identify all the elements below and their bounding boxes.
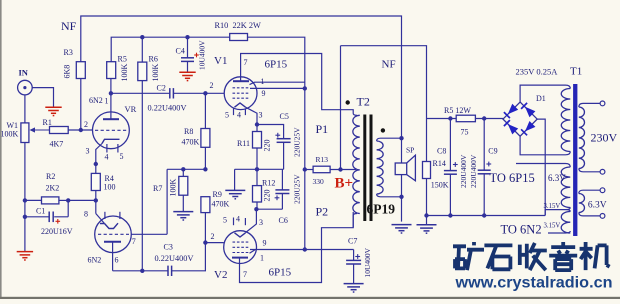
watermark char yin: [549, 242, 577, 270]
svg-text:4K7: 4K7: [50, 140, 64, 149]
svg-text:C2: C2: [157, 83, 166, 92]
svg-text:2: 2: [84, 120, 88, 129]
junction rail/R13: [303, 167, 307, 171]
svg-text:220U16V: 220U16V: [41, 227, 73, 236]
junction C9 top: [482, 116, 486, 120]
junction secondary bottom/SP ground: [399, 195, 403, 199]
wire 6.3V bottom lead: [579, 213, 600, 216]
ground R14: [417, 225, 437, 233]
junction pin3/R4: [94, 162, 98, 166]
wire P1 top connector: [353, 110, 357, 115]
wire secondary top connector: [377, 138, 381, 141]
svg-text:1: 1: [105, 97, 109, 106]
capacitor C4: [181, 58, 194, 62]
svg-text:T2: T2: [357, 95, 370, 109]
svg-text:10U400V: 10U400V: [363, 247, 372, 277]
svg-text:6N2: 6N2: [89, 96, 103, 105]
wire V1 pin7 to P1: [241, 54, 354, 111]
diode D1 lower-right: [525, 121, 535, 131]
ground cathode row: [225, 190, 245, 198]
wire C6 bottom: [281, 194, 283, 210]
capacitor C3: [168, 266, 172, 276]
diode D1 upper-left: [508, 104, 518, 114]
ground bottom-left (red): [17, 252, 33, 260]
resistor R8: [201, 129, 210, 148]
svg-text:2: 2: [211, 232, 215, 241]
heater stubs upper 6N2: [107, 144, 118, 153]
core T1: [573, 84, 577, 236]
wire C9 top lead: [483, 119, 485, 171]
wire grid pin7 to NF node: [131, 233, 167, 235]
wire row down to 6N2 grid: [166, 169, 168, 234]
svg-text:235V 0.25A: 235V 0.25A: [516, 67, 559, 77]
phasing dot T2 primary: [346, 100, 350, 104]
potentiometer W1: [21, 123, 29, 143]
junction W1/C1: [23, 215, 27, 219]
svg-text:6P15: 6P15: [265, 59, 288, 71]
bottom edge line: [0, 297, 620, 299]
svg-text:10U400V: 10U400V: [198, 40, 207, 70]
grids V2: [233, 242, 251, 252]
capacitor C7: [346, 260, 361, 264]
wire R13 left: [305, 169, 313, 171]
wire R7 top: [182, 169, 184, 176]
diode D1 lower-left: [508, 124, 518, 134]
wire heater center tap: [545, 208, 570, 216]
core T2: [365, 115, 371, 222]
svg-text:7: 7: [132, 237, 136, 246]
svg-text:1: 1: [260, 254, 264, 263]
ground R7: [173, 212, 193, 220]
svg-text:100K: 100K: [120, 64, 129, 82]
svg-text:3.15V: 3.15V: [544, 203, 561, 210]
wire C4 top: [187, 37, 189, 58]
wire C3 left: [142, 270, 168, 272]
wire B+ vertical: [340, 46, 342, 170]
wire V1 pin3 cathode: [246, 107, 258, 131]
wire bridge minus: [537, 119, 545, 215]
plate V2: [232, 257, 248, 259]
svg-text:3: 3: [86, 147, 90, 156]
watermark char shou: [520, 243, 547, 270]
svg-text:P2: P2: [316, 205, 329, 219]
cathode lower 6N2: [100, 223, 118, 228]
wire T1 primary top corner: [566, 85, 571, 88]
svg-text:230V: 230V: [591, 131, 618, 145]
grids V1: [233, 88, 251, 98]
svg-text:R7: R7: [153, 184, 162, 193]
junction row/R7: [181, 167, 185, 171]
svg-text:R1: R1: [43, 118, 52, 127]
wire heater bottom tap: [548, 232, 566, 234]
wire NF/secondary to speaker: [401, 138, 403, 163]
svg-text:6.3V: 6.3V: [548, 173, 566, 183]
watermark char ji: [580, 242, 610, 270]
diode D1 upper-right: [525, 107, 535, 117]
wire R2 right: [59, 199, 68, 201]
wire row ground stem: [234, 169, 236, 190]
wire bridge AC bottom: [520, 136, 565, 155]
wire R8 top lead: [204, 93, 206, 128]
wire R6 top: [141, 37, 143, 62]
terminal 6.3V top: [600, 188, 605, 193]
svg-text:150K: 150K: [431, 181, 449, 190]
capacitor C6: [275, 190, 289, 194]
svg-text:R3: R3: [64, 48, 73, 57]
resistor R6: [138, 62, 147, 81]
svg-text:5: 5: [120, 152, 124, 161]
svg-text:C6: C6: [279, 216, 288, 225]
svg-text:8: 8: [84, 210, 88, 219]
junction R3/R1/grid: [79, 128, 83, 132]
resistor R5: [107, 62, 116, 79]
junction R4/R2 wire: [94, 198, 98, 202]
junction B+/R13: [338, 167, 342, 171]
wire C1 left: [25, 216, 49, 218]
wire R5 bottom to plate: [110, 79, 112, 120]
svg-text:220U25V: 220U25V: [292, 127, 301, 157]
ground speaker: [392, 225, 412, 233]
wire 6.3V top lead: [579, 190, 600, 193]
svg-text:6.3V: 6.3V: [588, 201, 607, 211]
ground C7: [344, 284, 364, 292]
wiper arrow W1: [30, 127, 50, 132]
junction plate/R5/C2: [109, 91, 113, 95]
svg-text:IN: IN: [19, 68, 29, 78]
junction pin3/R11/C5: [255, 122, 259, 126]
svg-text:220: 220: [263, 190, 272, 202]
svg-text:9: 9: [263, 239, 267, 248]
wire R8 bottom: [204, 147, 206, 169]
svg-text:3: 3: [259, 111, 263, 120]
plate upper 6N2: [103, 118, 119, 120]
terminal 230V top: [600, 101, 605, 106]
svg-text:V2: V2: [214, 269, 227, 281]
wire C2 to V1 grid: [173, 92, 224, 94]
svg-text:3: 3: [259, 218, 263, 227]
svg-text:B+: B+: [335, 176, 354, 192]
wire C6 top: [281, 169, 283, 190]
tube 6N2 lower envelope: [95, 216, 132, 253]
svg-text:220: 220: [263, 140, 272, 152]
wire R13 right to tap: [330, 169, 356, 171]
winding T1 230V: [579, 107, 585, 169]
resistor R4: [91, 173, 100, 190]
wire C3 right: [172, 243, 206, 271]
resistor R12: [253, 186, 262, 202]
grid upper 6N2: [95, 129, 127, 131]
wire screens to C7: [353, 250, 355, 261]
wire 230V bottom lead: [579, 169, 600, 172]
junction bus/C8: [448, 213, 452, 217]
junction V2 screens/rail: [303, 247, 307, 251]
svg-text:100K: 100K: [1, 130, 19, 139]
wire R5 12W right: [475, 118, 503, 120]
resistor R14: [423, 162, 431, 179]
tube V2 envelope: [224, 231, 257, 264]
winding secondary of T2: [377, 141, 384, 194]
wire P2 bottom connector: [353, 214, 357, 228]
wire C8 bottom lead: [449, 174, 451, 215]
cathode V1: [235, 103, 246, 107]
svg-text:TO 6P15: TO 6P15: [490, 171, 535, 185]
junction R6 top: [140, 35, 144, 39]
wire pin8 into cathode: [96, 214, 105, 224]
svg-text:4: 4: [105, 153, 109, 162]
svg-text:4: 4: [236, 215, 240, 224]
grid lower 6N2: [98, 233, 129, 235]
junction R9/C3/V2 grid: [203, 240, 207, 244]
wire NF top line: [81, 16, 402, 138]
terminal 230V bottom: [600, 169, 605, 174]
wire bridge AC top: [520, 85, 565, 102]
wire preamp rail: [111, 37, 230, 62]
junction V1 screens/rail: [303, 86, 307, 90]
svg-text:6: 6: [115, 256, 119, 265]
svg-text:470K: 470K: [212, 200, 230, 209]
svg-text:220U25V: 220U25V: [292, 174, 301, 204]
svg-text:R5: R5: [118, 55, 127, 64]
svg-text:75: 75: [461, 128, 469, 137]
wire V2 pin1 lead: [250, 250, 256, 253]
svg-text:R9: R9: [213, 190, 222, 199]
svg-text:100K: 100K: [151, 64, 160, 82]
terminal 6.3V bottom: [600, 214, 605, 219]
svg-text:NF: NF: [382, 59, 396, 71]
winding T1 primary: [561, 89, 570, 152]
bridge D1 outline: [503, 102, 537, 136]
junction C2/R8/V1 grid: [203, 91, 207, 95]
wire secondary bottom connector: [377, 194, 381, 197]
wire R7 to ground: [182, 195, 184, 211]
resistor R9: [201, 197, 210, 213]
svg-text:4: 4: [237, 111, 241, 120]
junction C4 top: [185, 35, 189, 39]
svg-text:6N2: 6N2: [88, 256, 102, 265]
svg-text:0.22U400V: 0.22U400V: [155, 254, 194, 263]
wire cathode to C5: [257, 125, 284, 139]
svg-text:D1: D1: [536, 94, 546, 103]
wire C9 bottom lead: [483, 174, 485, 216]
junction NF/secondary/SP: [399, 136, 403, 140]
svg-text:1: 1: [261, 77, 265, 86]
svg-text:6K8: 6K8: [63, 65, 72, 79]
wire plate pin6 down: [113, 242, 143, 271]
winding T1 6.3V: [579, 194, 585, 213]
capacitor C5: [277, 139, 291, 143]
wire R10 right to screen rail: [248, 37, 305, 249]
heater stubs V1: [234, 108, 246, 115]
winding T1 heater lower: [561, 212, 570, 234]
wire W1 down to ground: [24, 143, 26, 252]
svg-text:T1: T1: [570, 66, 582, 78]
svg-text:C3: C3: [164, 243, 173, 252]
junction R2 right: [66, 198, 70, 202]
wire speaker to ground: [401, 175, 403, 222]
svg-text:3.15V: 3.15V: [544, 222, 561, 229]
wire secondary top to SP: [381, 137, 402, 139]
resistor R5 12W: [456, 115, 475, 122]
wire R2 left: [25, 199, 42, 201]
svg-text:R10 22K 2W: R10 22K 2W: [215, 21, 261, 30]
svg-text:0.22U400V: 0.22U400V: [148, 103, 187, 112]
svg-text:6P15: 6P15: [269, 267, 292, 279]
winding P1/P2 of T2: [353, 115, 360, 213]
resistor R7: [179, 176, 188, 195]
svg-text:100: 100: [104, 183, 116, 192]
watermark char shi: [484, 245, 512, 269]
svg-text:R5 12W: R5 12W: [444, 106, 471, 115]
wire R12 leads: [256, 169, 258, 209]
wire 230V top lead: [579, 103, 600, 107]
svg-text:R2: R2: [46, 172, 55, 181]
wire V2 pin7 to P2: [240, 212, 354, 283]
svg-text:470K: 470K: [182, 138, 200, 147]
junction plate6/C3: [140, 269, 144, 273]
wire NF row: [167, 168, 205, 170]
winding T1 heater upper: [561, 167, 570, 208]
svg-text:C8: C8: [437, 147, 446, 156]
wire R6 bottom long: [141, 81, 143, 271]
ground C4 (red): [179, 72, 195, 80]
svg-text:TO 6N2: TO 6N2: [501, 223, 542, 237]
wire C7 to ground: [353, 264, 355, 283]
svg-text:NF: NF: [61, 19, 77, 33]
junction bus/C9: [482, 213, 486, 217]
wire lower cathode row: [256, 208, 282, 210]
svg-text:V1: V1: [214, 55, 227, 67]
wire B+ feed: [341, 46, 457, 119]
wire cathode pin3 to R4: [96, 144, 102, 174]
heater stubs lower 6N2: [105, 212, 120, 219]
svg-text:SP: SP: [406, 146, 414, 155]
wire R14 bottom: [426, 179, 428, 225]
svg-text:C7: C7: [348, 237, 357, 246]
svg-text:2K2: 2K2: [46, 184, 60, 193]
svg-text:220U400V: 220U400V: [469, 154, 478, 188]
svg-text:VR: VR: [125, 104, 137, 114]
plate V1: [233, 80, 249, 82]
capacitor C1: [49, 212, 53, 223]
wire IN to W1: [24, 95, 26, 123]
svg-text:R6: R6: [149, 55, 158, 64]
resistor R13: [313, 166, 330, 173]
svg-text:C1: C1: [36, 207, 45, 216]
svg-text:6P19: 6P19: [367, 202, 396, 217]
svg-text:R14: R14: [433, 159, 446, 168]
wire plate to C2: [111, 92, 170, 94]
heater stubs V2: [234, 218, 246, 226]
wire R4 bottom: [95, 191, 97, 214]
junction lower row: [254, 207, 258, 211]
wire T1 primary bottom corner: [566, 152, 571, 155]
svg-text:C4: C4: [176, 47, 185, 56]
cathode upper 6N2: [102, 139, 120, 143]
plus mark C4 (red): [194, 53, 199, 58]
svg-text:C9: C9: [488, 147, 497, 156]
wire R1 to grid junction: [68, 129, 92, 131]
wire C8 top lead: [449, 119, 451, 171]
left edge line: [0, 0, 2, 299]
phasing dot T2 secondary: [381, 128, 385, 132]
wire R9 bottom to V2 grid: [205, 213, 223, 243]
svg-text:7: 7: [243, 270, 247, 279]
wire cathode row: [235, 168, 284, 170]
capacitor C9: [478, 170, 491, 174]
svg-text:C5: C5: [280, 112, 289, 121]
wire IN to ground: [32, 88, 53, 107]
svg-text:R8: R8: [184, 127, 193, 136]
wire V1 pin9 lead: [250, 87, 305, 89]
svg-text:100K: 100K: [169, 179, 178, 197]
svg-text:5: 5: [223, 216, 227, 225]
wire R14 top: [426, 119, 428, 162]
svg-text:www.crystalradio.cn: www.crystalradio.cn: [454, 275, 612, 292]
resistor R3: [76, 62, 85, 79]
svg-text:5: 5: [225, 111, 229, 120]
wire ground bus: [427, 215, 546, 217]
wire heater top corner: [566, 164, 571, 168]
junction W1/R2: [23, 198, 27, 202]
wire R11 bottom: [256, 148, 258, 169]
svg-text:9: 9: [262, 89, 266, 98]
tube V1 envelope: [224, 77, 257, 110]
wire heater top tap: [516, 163, 566, 165]
cathode V2: [235, 233, 246, 237]
wire V1 pin1 lead: [250, 82, 305, 84]
resistor R10: [230, 34, 248, 41]
resistor R1: [50, 127, 69, 134]
ground input (red): [45, 107, 61, 115]
svg-text:220U400V: 220U400V: [459, 154, 468, 188]
svg-text:7: 7: [244, 58, 248, 67]
speaker SP: [395, 155, 415, 181]
junction C8 top: [448, 116, 452, 120]
svg-text:R12: R12: [262, 179, 275, 188]
wire heater bottom corner: [566, 231, 571, 233]
capacitor C8: [444, 171, 457, 175]
capacitor C2: [170, 88, 174, 98]
junction row/R8/R9: [203, 167, 207, 171]
wire secondary bottom: [381, 196, 402, 198]
svg-text:R13: R13: [316, 155, 329, 164]
svg-text:2: 2: [210, 81, 214, 90]
wire R2/C1 right link: [54, 200, 96, 216]
wire V2 pin3 cathode: [246, 209, 257, 232]
svg-text:P1: P1: [316, 122, 329, 136]
resistor R11: [253, 132, 262, 149]
junction row/R11 R12: [255, 167, 259, 171]
wire V2 pin9 lead: [250, 249, 354, 251]
input jack IN: [18, 80, 33, 95]
tube VR/6N2 upper envelope: [93, 112, 130, 149]
watermark char kuang: [453, 242, 484, 270]
plate lower 6N2: [104, 241, 121, 243]
wire C4 to ground: [187, 61, 189, 71]
wire C5 bottom: [283, 142, 285, 169]
wire R3 to grid junction: [80, 79, 82, 131]
svg-text:330: 330: [313, 177, 325, 186]
resistor R2: [42, 197, 59, 204]
svg-text:R11: R11: [237, 139, 250, 148]
junction bus/R14: [424, 213, 428, 217]
